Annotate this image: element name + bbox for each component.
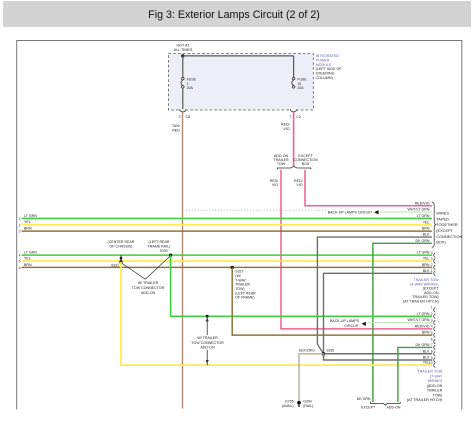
svg-text:BRN: BRN xyxy=(422,263,430,267)
svg-text:W/ TRAILER: W/ TRAILER xyxy=(197,336,218,340)
svg-text:DK GRN: DK GRN xyxy=(357,397,371,401)
svg-text:BLK: BLK xyxy=(423,356,430,360)
svg-text:TOW): TOW) xyxy=(433,393,443,397)
svg-text:(7-WAY: (7-WAY xyxy=(430,374,443,378)
svg-text:LT GRN: LT GRN xyxy=(417,251,430,255)
ground G304 xyxy=(297,401,301,405)
svg-text:BRN: BRN xyxy=(422,227,430,231)
wire BRN to 7-way pin 5 xyxy=(232,267,432,335)
svg-text:BOX: BOX xyxy=(302,162,310,166)
pin 7-way 6 xyxy=(434,339,436,344)
svg-text:TOW CONNECTOR: TOW CONNECTOR xyxy=(132,286,165,290)
svg-text:S330: S330 xyxy=(160,249,168,253)
svg-text:LT GRN: LT GRN xyxy=(24,251,37,255)
wire fuse 15 upper lead xyxy=(293,56,295,78)
svg-text:WHT/LT GRN: WHT/LT GRN xyxy=(407,208,429,212)
svg-text:20A: 20A xyxy=(297,86,304,90)
wire DK GRN to bundle xyxy=(373,243,432,402)
svg-text:W/ TRAILER: W/ TRAILER xyxy=(138,281,159,285)
svg-text:BRN: BRN xyxy=(24,263,32,267)
svg-text:5: 5 xyxy=(431,331,433,335)
svg-text:10: 10 xyxy=(429,361,433,365)
svg-text:FRAME RAIL): FRAME RAIL) xyxy=(148,245,171,249)
leader double arrow xyxy=(206,316,208,365)
svg-text:3: 3 xyxy=(431,318,433,322)
wire RED/VIO add-on branch xyxy=(281,170,432,329)
option split symbol xyxy=(277,166,311,169)
wire BLK 7-way pin 9 xyxy=(324,354,433,360)
svg-text:S335: S335 xyxy=(326,349,334,353)
svg-text:BRN: BRN xyxy=(422,331,430,335)
svg-text:(LEFT SIDE OF: (LEFT SIDE OF xyxy=(316,67,343,71)
diagram frame right border xyxy=(461,40,463,410)
wire LT GRN to 7-way pin 2 xyxy=(171,255,433,316)
node splice S327 xyxy=(231,266,234,269)
svg-text:TOW: TOW xyxy=(277,162,286,166)
svg-text:4: 4 xyxy=(431,325,433,329)
svg-text:RED/VIO: RED/VIO xyxy=(415,201,430,205)
svg-text:4: 4 xyxy=(19,254,21,258)
svg-text:YEL: YEL xyxy=(423,257,430,261)
svg-text:2: 2 xyxy=(431,263,433,267)
svg-text:C2: C2 xyxy=(296,115,301,119)
svg-text:G705: G705 xyxy=(285,400,294,404)
title bar xyxy=(3,1,471,27)
svg-text:WHT/LT GRN: WHT/LT GRN xyxy=(407,318,429,322)
svg-text:4: 4 xyxy=(431,251,433,255)
leader to S330 xyxy=(145,256,170,279)
wire RED/VIO except branch xyxy=(305,170,432,206)
svg-text:1: 1 xyxy=(431,269,433,273)
svg-text:BOX): BOX) xyxy=(436,240,446,245)
svg-text:(EXCEPT: (EXCEPT xyxy=(436,228,453,233)
wire fuse 1 upper lead xyxy=(182,56,184,78)
svg-text:VIO: VIO xyxy=(283,127,289,131)
svg-text:(ADD-ON: (ADD-ON xyxy=(427,384,443,388)
svg-text:LT GRN: LT GRN xyxy=(417,312,430,316)
svg-text:6: 6 xyxy=(431,337,433,341)
svg-text:YEL: YEL xyxy=(423,220,430,224)
svg-text:S331: S331 xyxy=(111,263,119,267)
svg-text:RED/VIO: RED/VIO xyxy=(415,325,430,329)
svg-text:1: 1 xyxy=(19,217,21,221)
svg-text:BLK/ORG: BLK/ORG xyxy=(299,349,315,353)
wire BLK/ORG to ground xyxy=(299,354,324,402)
svg-text:LT GRN: LT GRN xyxy=(24,214,37,218)
node hot bus junction xyxy=(181,54,184,57)
svg-text:VIO: VIO xyxy=(296,183,302,187)
connector C8 symbol xyxy=(180,109,186,112)
svg-text:(LEFT REAR: (LEFT REAR xyxy=(149,240,170,244)
wire fuse 1 lower lead xyxy=(182,88,184,110)
svg-text:MODULE: MODULE xyxy=(316,63,332,67)
svg-text:HOT AT: HOT AT xyxy=(177,43,191,47)
diagram frame left border xyxy=(16,40,18,410)
svg-text:DK GRN: DK GRN xyxy=(416,343,430,347)
svg-text:(AT TRAILER HITCH): (AT TRAILER HITCH) xyxy=(403,300,439,304)
svg-text:ALL TIMES: ALL TIMES xyxy=(174,48,193,52)
svg-text:YEL: YEL xyxy=(24,220,31,224)
wire WHT/LT GRN top xyxy=(380,211,432,213)
wire YEL to 7-way pin 10 xyxy=(121,262,432,365)
wire WHT/LT GRN lower xyxy=(368,322,433,324)
brace wires taped together xyxy=(432,202,437,247)
wire YEL circuit 2 xyxy=(22,224,432,226)
wire hot bus xyxy=(183,55,294,57)
svg-text:C8: C8 xyxy=(186,115,191,119)
node splice S331 xyxy=(120,260,123,263)
svg-text:(AVAIL): (AVAIL) xyxy=(282,404,294,408)
arrow back-up lower xyxy=(362,322,366,326)
wire BRN circuit 3 xyxy=(22,230,432,232)
svg-text:BLK: BLK xyxy=(423,269,430,273)
svg-text:TRAILER TOW: TRAILER TOW xyxy=(417,370,443,374)
svg-text:2: 2 xyxy=(431,312,433,316)
svg-text:BRN: BRN xyxy=(24,227,32,231)
node tap on LT GRN xyxy=(206,315,209,318)
svg-text:YEL: YEL xyxy=(24,256,31,260)
node splice S330 xyxy=(169,254,172,257)
svg-text:CIRCUIT: CIRCUIT xyxy=(344,324,359,328)
svg-text:POWER: POWER xyxy=(316,58,330,62)
svg-text:Fig 3: Exterior Lamps Circuit: Fig 3: Exterior Lamps Circuit (2 of 2) xyxy=(148,9,320,21)
svg-text:CONNECTION: CONNECTION xyxy=(436,234,462,239)
svg-text:BACK-UP LAMPS: BACK-UP LAMPS xyxy=(330,319,360,323)
wire YEL circuit 5 xyxy=(22,260,433,262)
wire BRN circuit 6 xyxy=(22,266,433,268)
node tie dot xyxy=(120,257,123,260)
diagram frame top border xyxy=(17,40,462,42)
svg-text:VIO: VIO xyxy=(272,183,278,187)
svg-text:5: 5 xyxy=(19,260,21,264)
note w/ trailer tow connector add-on lower xyxy=(188,335,227,350)
svg-text:ADD-ON: ADD-ON xyxy=(141,291,156,295)
wire WHT/LT GRN dotted continuation xyxy=(186,209,327,211)
svg-text:ADD-ON: ADD-ON xyxy=(387,406,401,410)
svg-text:(RAIL): (RAIL) xyxy=(303,404,313,408)
svg-text:INTEGRATED: INTEGRATED xyxy=(316,54,340,58)
svg-text:OF FRAME): OF FRAME) xyxy=(235,296,254,300)
svg-text:(AT TRAILER HITCH): (AT TRAILER HITCH) xyxy=(407,398,443,402)
svg-text:2: 2 xyxy=(19,223,21,227)
svg-text:9: 9 xyxy=(431,356,433,360)
option merge symbol xyxy=(370,402,400,405)
svg-text:WIRING): WIRING) xyxy=(427,379,442,383)
svg-text:7: 7 xyxy=(289,115,291,119)
wire BLK 7-way pin 8 xyxy=(324,353,433,355)
svg-text:STEERING: STEERING xyxy=(316,72,335,76)
connector C2 symbol xyxy=(290,109,296,112)
wire LT GRN circuit 1 xyxy=(22,217,432,219)
svg-text:COLUMN): COLUMN) xyxy=(316,76,333,80)
arrow back-up top xyxy=(374,210,378,214)
svg-text:EXCEPT: EXCEPT xyxy=(361,406,376,410)
wire BLK to bundle xyxy=(317,237,431,354)
svg-text:DK GRN: DK GRN xyxy=(416,239,430,243)
node splice S335 xyxy=(322,352,326,356)
wire BLK 4-way pin 1 xyxy=(324,273,433,354)
leader to S331 xyxy=(122,263,146,279)
svg-text:G304: G304 xyxy=(303,400,312,404)
svg-text:3: 3 xyxy=(19,230,21,234)
svg-text:8: 8 xyxy=(431,350,433,354)
svg-text:TAPED: TAPED xyxy=(436,216,449,221)
svg-text:WIRES: WIRES xyxy=(436,210,449,215)
svg-text:BLK: BLK xyxy=(423,233,430,237)
svg-text:6: 6 xyxy=(19,266,21,270)
svg-text:3: 3 xyxy=(431,257,433,261)
svg-text:OF CHASSIS): OF CHASSIS) xyxy=(110,245,133,249)
fuse F1 xyxy=(182,77,185,80)
wire splice tie xyxy=(120,255,122,262)
wire RED/VIO from fuse 15 xyxy=(293,112,295,166)
svg-text:7: 7 xyxy=(431,343,433,347)
svg-text:RED: RED xyxy=(172,128,180,132)
svg-text:TOGETHER: TOGETHER xyxy=(436,222,458,227)
svg-text:LT GRN: LT GRN xyxy=(417,214,430,218)
svg-text:TOW CONNECTOR: TOW CONNECTOR xyxy=(191,341,224,345)
fuse F15 xyxy=(292,77,295,80)
svg-text:1: 1 xyxy=(431,306,433,310)
wire DK GRN 7-way pin 7 xyxy=(398,347,432,402)
svg-text:BLK: BLK xyxy=(423,349,430,353)
svg-text:ADD-ON: ADD-ON xyxy=(200,346,215,350)
svg-text:2: 2 xyxy=(179,115,181,119)
wire LT GRN circuit 4 xyxy=(22,254,433,256)
wire TAN/RED from fuse 1 xyxy=(182,112,184,409)
pin 7-way 1 xyxy=(434,308,436,313)
svg-text:TRAILER: TRAILER xyxy=(427,389,443,393)
integrated power module box (dashed) xyxy=(168,54,313,110)
svg-text:(CENTER REAR: (CENTER REAR xyxy=(108,240,135,244)
svg-text:20A: 20A xyxy=(187,86,194,90)
svg-text:BACK-UP LAMPS CIRCUIT: BACK-UP LAMPS CIRCUIT xyxy=(328,211,373,215)
